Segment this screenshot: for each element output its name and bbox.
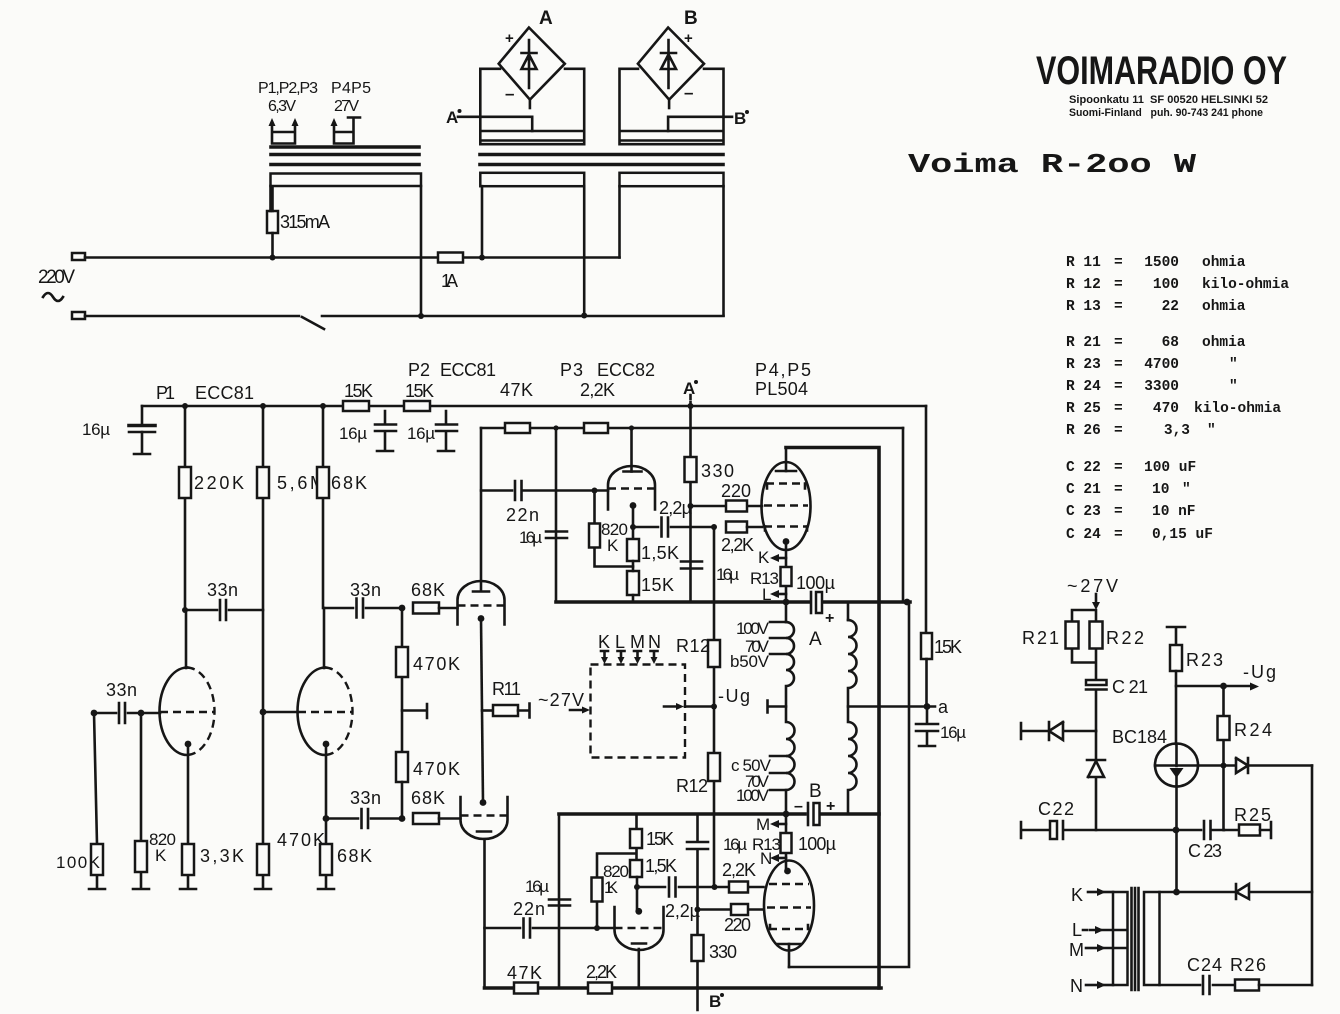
svg-text:100 uF: 100 uF	[1144, 460, 1196, 476]
svg-text:R 24: R 24	[1066, 379, 1101, 395]
wire primary right stem	[420, 186, 423, 316]
resistor 820K P3a	[595, 491, 634, 567]
svg-text:a: a	[938, 697, 949, 717]
wire primary left stem	[269, 186, 272, 211]
svg-text:15K: 15K	[405, 381, 434, 401]
svg-text:M: M	[1069, 940, 1084, 960]
resistor 68K horizontal lower	[413, 813, 439, 824]
svg-text:ohmia: ohmia	[1202, 255, 1246, 271]
svg-text:A: A	[446, 108, 458, 127]
svg-text:C 24: C 24	[1066, 527, 1101, 543]
anode bar P3a	[624, 470, 642, 473]
resistor 220 lower	[698, 908, 764, 911]
svg-text:=: =	[1114, 255, 1123, 271]
mains terminal upper	[72, 253, 85, 260]
svg-text:15K: 15K	[646, 829, 674, 849]
svg-text:3,3K: 3,3K	[200, 846, 244, 866]
svg-text:": "	[1207, 423, 1216, 439]
svg-text:R 21: R 21	[1066, 335, 1101, 351]
resistor 470K (5,6M bottom)	[255, 712, 271, 889]
wire primary A right stem	[583, 186, 586, 315]
svg-text:R 11: R 11	[1066, 255, 1101, 271]
svg-text:+: +	[505, 30, 514, 47]
svg-text:C 21: C 21	[1066, 482, 1101, 498]
tube P2b half-triode bowl	[461, 797, 508, 839]
svg-text:68K: 68K	[331, 473, 367, 493]
svg-text:=: =	[1114, 504, 1123, 520]
wire K row to diode D4	[1160, 891, 1237, 894]
wire bottom rail	[485, 986, 882, 990]
svg-text:M: M	[756, 815, 770, 834]
svg-text:": "	[1229, 379, 1238, 395]
input node	[91, 710, 98, 717]
svg-text:R 26: R 26	[1066, 423, 1101, 439]
resistor R22	[1090, 622, 1103, 649]
node C22 wire emitter	[1173, 827, 1180, 834]
resistor 330 upper	[689, 406, 692, 602]
primary winding A	[785, 602, 788, 622]
wire bus 602 with 100u gap	[556, 600, 910, 604]
svg-text:33n: 33n	[350, 580, 381, 600]
svg-text:~27V: ~27V	[538, 690, 584, 710]
svg-text:68: 68	[1162, 335, 1179, 351]
svg-text:B: B	[684, 8, 698, 29]
svg-text:P2: P2	[408, 360, 430, 380]
secondary box B	[620, 69, 724, 144]
anode dot P2b	[480, 799, 487, 806]
diode D3	[1198, 758, 1312, 773]
terminal bar diode D1	[1021, 723, 1049, 739]
svg-text:K: K	[758, 548, 770, 567]
svg-text:220K: 220K	[194, 473, 244, 493]
svg-text:R 23: R 23	[1066, 357, 1101, 373]
node 820K grid junction	[592, 488, 598, 494]
resistor 3,3K cathode P1a	[180, 744, 196, 889]
wire PL504 lower anode riser	[789, 602, 909, 967]
svg-text:1A: 1A	[441, 271, 458, 291]
resistors R21 R22 parallel bracket	[1072, 610, 1096, 680]
anode link wire	[785, 448, 788, 472]
grid line P1b	[263, 711, 298, 714]
resistor 2,2K upper	[726, 522, 747, 533]
svg-text:33n: 33n	[207, 580, 238, 600]
svg-text:33n: 33n	[106, 680, 137, 700]
svg-text:ECC81: ECC81	[440, 360, 496, 380]
node primary A right	[581, 313, 587, 319]
svg-text:A: A	[539, 8, 553, 29]
node -Ug right junction	[1176, 685, 1250, 688]
node rail2 P3a anode junction	[629, 425, 634, 430]
node D3 R24 crossing	[1221, 763, 1227, 769]
svg-text:C 23: C 23	[1188, 841, 1222, 861]
taps 100V 70V b50V	[770, 622, 786, 654]
svg-text:2,2µ: 2,2µ	[659, 498, 692, 518]
resistor R26	[1235, 980, 1259, 991]
cathode dot P1a	[185, 741, 192, 748]
svg-text:N: N	[648, 632, 661, 652]
svg-text:kilo-ohmia: kilo-ohmia	[1202, 277, 1289, 293]
svg-text:16µ: 16µ	[940, 723, 966, 742]
svg-text:470K: 470K	[413, 654, 460, 674]
capacitor 16u rail a	[375, 411, 396, 451]
svg-text:33n: 33n	[350, 788, 381, 808]
svg-text:10: 10	[1152, 482, 1169, 498]
svg-text:R12: R12	[676, 636, 710, 656]
winding terminals 6.3V arrows	[272, 123, 295, 144]
resistor 15K P3a	[627, 571, 639, 595]
-Ug output arrow	[664, 705, 678, 708]
resistor 68K (P1b anode)	[322, 406, 325, 608]
resistor R13 upper	[781, 567, 792, 586]
diode D1	[1049, 722, 1096, 740]
node -Ug junction	[711, 704, 717, 710]
svg-text:2,2K: 2,2K	[586, 962, 617, 982]
resistor 15K right	[921, 633, 932, 659]
capacitor C23	[1176, 821, 1224, 839]
fuse 315mA	[267, 211, 278, 233]
fuse 1A	[438, 253, 463, 263]
svg-text:100µ: 100µ	[796, 573, 835, 593]
capacitor 16u mid upper	[546, 532, 567, 539]
resistor R12 upper	[708, 640, 720, 667]
node junction 315mA column	[270, 255, 276, 261]
bridge rectifier B diamond	[638, 28, 704, 100]
svg-text:K: K	[598, 632, 610, 652]
svg-text:16µ: 16µ	[82, 420, 110, 439]
svg-text:2,2µ: 2,2µ	[665, 901, 700, 921]
svg-text:L: L	[1072, 920, 1082, 940]
svg-text:A: A	[809, 629, 822, 650]
svg-text:100V: 100V	[736, 619, 770, 638]
svg-text:R24: R24	[1234, 720, 1272, 740]
svg-text:=: =	[1114, 460, 1123, 476]
svg-text:16µ: 16µ	[339, 424, 367, 443]
resistor 2,2K bottom	[588, 983, 612, 994]
svg-text:16µ: 16µ	[407, 424, 435, 443]
node K wire emitter junction	[1173, 889, 1180, 896]
resistor 5,6M	[262, 406, 265, 712]
N arrow	[777, 857, 786, 860]
wire a-line secondary tap	[848, 705, 935, 708]
grid line P2a	[458, 604, 505, 606]
svg-text:1500: 1500	[1144, 255, 1179, 271]
node grid P1b	[260, 709, 267, 716]
svg-text:100: 100	[1153, 277, 1179, 293]
svg-text:68K: 68K	[337, 846, 372, 866]
svg-text:P4P5: P4P5	[331, 80, 371, 97]
secondary winding	[847, 602, 850, 620]
tube PL504 upper	[762, 462, 811, 550]
switch	[85, 316, 724, 329]
svg-text:R 12: R 12	[1066, 277, 1101, 293]
anode bar PL504 upper	[776, 470, 796, 473]
svg-text:P1: P1	[156, 383, 175, 403]
cathode dot P3b	[635, 908, 642, 915]
wire mains live right of fuse	[463, 256, 620, 259]
node rail P1b-5.6M	[260, 403, 266, 409]
resistor 220K	[184, 406, 187, 610]
wire A' stub	[689, 395, 692, 406]
bias transformer windings	[1113, 892, 1128, 985]
grid line P3a	[608, 487, 655, 489]
node junction bottom wire	[418, 313, 424, 319]
svg-text:16µ: 16µ	[519, 528, 542, 547]
wire C24 row	[1160, 984, 1236, 987]
svg-text:ohmia: ohmia	[1202, 299, 1246, 315]
svg-text:10 nF: 10 nF	[1152, 504, 1196, 520]
node 820K top	[138, 710, 145, 717]
transistor BC184 circle	[1155, 744, 1198, 787]
anode bar P2a	[473, 590, 489, 593]
node a 15K junction	[924, 703, 931, 710]
diode inside bridge B	[661, 40, 676, 88]
svg-text:B: B	[734, 109, 746, 128]
svg-text:–: –	[684, 83, 693, 102]
wire rail1 right drop	[925, 406, 928, 633]
svg-text:~27V: ~27V	[1067, 576, 1118, 596]
wire P3a anode	[630, 428, 633, 472]
svg-text:1,5K: 1,5K	[645, 856, 677, 876]
svg-text:=: =	[1114, 299, 1123, 315]
svg-text:R26: R26	[1230, 955, 1266, 975]
svg-text:-Ug: -Ug	[1243, 662, 1276, 682]
svg-text:ECC81: ECC81	[195, 383, 254, 403]
wire primary A left stem	[481, 186, 484, 257]
capacitor 22n lower	[485, 919, 615, 938]
svg-text:P3: P3	[560, 360, 583, 380]
resistor 1,5K lower	[630, 860, 642, 877]
secondary box A	[480, 69, 584, 144]
primary winding box B	[620, 173, 724, 186]
wire emitter	[1175, 787, 1178, 893]
svg-text:3,3: 3,3	[1164, 423, 1190, 439]
M arrow	[777, 823, 786, 826]
anode bar PL504 lower	[777, 943, 801, 946]
resistor 100K	[89, 713, 105, 889]
resistor 470K chain lower	[396, 752, 408, 782]
cathode bar P2b	[477, 830, 491, 833]
svg-text:47K: 47K	[500, 380, 533, 400]
resistor 820K lower	[597, 854, 636, 929]
tube P1b triode	[298, 668, 326, 756]
wire P3b anode stem	[637, 949, 640, 988]
resistor R12 lower	[713, 707, 716, 888]
svg-text:K: K	[607, 536, 619, 555]
wire anode stem lower	[788, 944, 791, 967]
svg-text:A: A	[683, 379, 695, 398]
svg-text:470: 470	[1153, 401, 1179, 417]
resistor 330 lower	[692, 935, 704, 961]
grid line P1a	[160, 711, 214, 713]
bridge rectifier A diamond	[499, 28, 565, 100]
grid line P2b	[461, 814, 508, 816]
capacitor 33n second	[324, 599, 402, 618]
node 33n lower junction on P1b cathode	[323, 815, 330, 822]
terminal bar R23 top	[1167, 627, 1185, 645]
svg-text:R 13: R 13	[1066, 299, 1101, 315]
svg-text:+: +	[684, 30, 693, 47]
resistor 15K lower	[635, 814, 638, 860]
svg-text:=: =	[1114, 379, 1123, 395]
resistor 15K rail second	[404, 401, 430, 411]
svg-text:=: =	[1114, 527, 1123, 543]
wire R12 column upper	[713, 527, 716, 707]
resistor R25	[1224, 829, 1239, 832]
taps c50V 70V 100V	[770, 756, 786, 790]
svg-text:3300: 3300	[1144, 379, 1179, 395]
svg-text:B: B	[809, 781, 822, 802]
node rail2 16u junction	[553, 425, 558, 430]
wire P1b anode	[323, 608, 326, 668]
wire 16u lower-left vertical	[558, 814, 561, 988]
resistor 68K horizontal upper	[413, 603, 439, 614]
tube P2a half-triode dome	[458, 581, 505, 625]
base chord	[1155, 764, 1198, 767]
svg-text:=: =	[1114, 277, 1123, 293]
svg-text:Suomi-Finland puh. 90-743 24: Suomi-Finland puh. 90-743 241 phone	[1069, 107, 1263, 119]
zener D2	[1087, 731, 1105, 830]
svg-text:47K: 47K	[507, 963, 542, 983]
svg-text:R22: R22	[1106, 628, 1144, 648]
svg-text:68K: 68K	[411, 788, 445, 808]
resistor R13 lower	[785, 814, 788, 871]
node 2,2u lower junction	[634, 884, 640, 890]
svg-text:C 21: C 21	[1112, 677, 1148, 697]
svg-text:15K: 15K	[934, 637, 962, 657]
wire cathode chain upper	[785, 542, 788, 603]
connector stub T	[402, 704, 427, 718]
cathode dot PL504 upper	[783, 538, 790, 545]
cathode dot P3a	[630, 502, 637, 509]
resistor R23	[1170, 645, 1182, 671]
grid dashes PL504 upper	[766, 482, 806, 484]
svg-text:b50V: b50V	[730, 652, 770, 671]
svg-text:K: K	[1071, 885, 1083, 905]
node 220 lower junction	[695, 907, 701, 913]
capacitor 100u lower	[807, 803, 810, 825]
capacitor 16u 330-column	[681, 562, 702, 569]
wire bus 814 lower with 100u gap	[559, 812, 879, 816]
wire -Ug to R12 column	[685, 705, 714, 708]
capacitor C22	[1021, 822, 1050, 838]
arrows into box K L M N	[601, 651, 658, 658]
svg-text:K: K	[155, 846, 167, 865]
tap B' step	[668, 117, 732, 131]
tube P1a triode	[160, 668, 188, 756]
wire right edge down	[1311, 766, 1314, 986]
capacitor 33n lower	[326, 809, 402, 828]
node 68K wire junction	[399, 605, 406, 612]
connector bar -Ug tap	[768, 701, 787, 713]
svg-text:N: N	[760, 849, 772, 868]
svg-text:R23: R23	[1186, 650, 1223, 670]
svg-text:1K: 1K	[604, 878, 619, 897]
svg-text:–: –	[505, 84, 514, 103]
resistor R24	[1222, 686, 1225, 830]
node A' rail	[688, 403, 694, 409]
node primary bottom junction	[783, 811, 790, 818]
node rail P1a	[182, 403, 188, 409]
svg-text:27V: 27V	[334, 98, 359, 115]
svg-text:22n: 22n	[506, 505, 539, 525]
svg-text:Sipoonkatu 11 SF 00520 HELSIN: Sipoonkatu 11 SF 00520 HELSINKI 52	[1069, 94, 1268, 106]
svg-text:22: 22	[1162, 299, 1179, 315]
svg-text:=: =	[1114, 335, 1123, 351]
svg-text:P4,P5: P4,P5	[755, 360, 811, 380]
svg-text:330: 330	[701, 461, 734, 481]
anode bar P3b	[632, 942, 646, 945]
diode D4	[1236, 884, 1312, 899]
wire primary B right stem	[722, 186, 725, 315]
resistor 820K input	[133, 713, 149, 889]
wire P2b bottom stem	[483, 839, 486, 988]
svg-text:2,2K: 2,2K	[722, 860, 756, 880]
svg-text:kilo-ohmia: kilo-ohmia	[1194, 401, 1281, 417]
svg-text:=: =	[1114, 482, 1123, 498]
heater core lines	[271, 155, 419, 165]
node R24 top	[1220, 683, 1227, 690]
node 820K lower junction	[594, 925, 600, 931]
svg-text:2,2K: 2,2K	[580, 380, 615, 400]
tube P3b half-triode bowl	[615, 907, 664, 950]
svg-text:22n: 22n	[513, 899, 545, 919]
svg-text:": "	[1229, 357, 1238, 373]
svg-text:2,2K: 2,2K	[721, 535, 754, 555]
svg-text:ohmia: ohmia	[1202, 335, 1246, 351]
heater primary winding box	[271, 174, 422, 187]
grid line P3b	[615, 927, 664, 929]
svg-text:R25: R25	[1234, 805, 1271, 825]
node R12 top	[711, 524, 717, 530]
resistor 47K bottom	[514, 983, 538, 994]
node 33n-220K junction	[182, 607, 188, 613]
svg-text:16µ: 16µ	[525, 877, 549, 896]
resistor 68K cathode P1b	[318, 744, 334, 889]
AC symbol ~	[43, 293, 63, 301]
cathode dot P2a	[478, 615, 485, 622]
svg-text:15K: 15K	[344, 381, 373, 401]
svg-text:16µ: 16µ	[716, 565, 739, 584]
resistor R11	[482, 709, 493, 712]
mains terminal lower	[72, 312, 85, 319]
capacitor 22n upper	[481, 481, 608, 500]
node rail 68K	[320, 403, 326, 409]
svg-text:220: 220	[724, 915, 751, 935]
node bus right	[904, 599, 911, 606]
svg-text:B: B	[709, 992, 721, 1011]
svg-text:C 22: C 22	[1066, 460, 1101, 476]
capacitor 16u rail left	[134, 406, 150, 454]
emitter arrow	[1175, 744, 1178, 787]
svg-text:BC184: BC184	[1112, 727, 1167, 747]
svg-text:=: =	[1114, 401, 1123, 417]
svg-text:Voima R-2oo W: Voima R-2oo W	[908, 151, 1197, 181]
wire rail1 B+ top	[142, 405, 926, 408]
resistor 220 upper	[691, 505, 763, 508]
capacitor C24	[1203, 976, 1210, 994]
svg-text:220V: 220V	[38, 267, 75, 288]
svg-text:15K: 15K	[641, 575, 674, 595]
svg-text:=: =	[1114, 423, 1123, 439]
svg-text:470K: 470K	[277, 830, 325, 850]
svg-text:0,15 uF: 0,15 uF	[1152, 527, 1213, 543]
svg-text:N: N	[1070, 976, 1083, 996]
svg-text:R 25: R 25	[1066, 401, 1101, 417]
svg-text:L: L	[615, 632, 625, 652]
svg-text:R12: R12	[676, 776, 708, 796]
node 2,2K lower junction	[712, 884, 718, 890]
svg-text:=: =	[1114, 357, 1123, 373]
